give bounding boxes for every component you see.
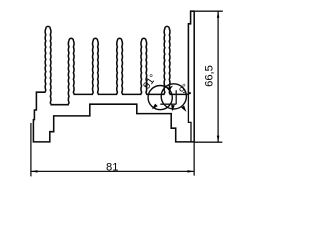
heatsink profile outline xyxy=(33,11,194,142)
dim 81 right extension line xyxy=(193,142,195,176)
angle dim arrowhead lower-left xyxy=(151,104,158,111)
dim 81 line xyxy=(31,170,194,172)
angle dim arc 1 xyxy=(148,86,172,110)
dim 66,5 bottom extension xyxy=(194,141,222,143)
dim 66,5 top arrow xyxy=(217,11,220,18)
angle dim tick dot xyxy=(189,92,191,94)
angle dim arrowhead top xyxy=(167,84,174,91)
dim 66,5 top extension xyxy=(194,10,223,12)
svg-text:81: 81 xyxy=(106,161,118,173)
svg-text:91°: 91° xyxy=(142,73,160,92)
angle dim arc 2 xyxy=(161,84,186,109)
dim 66,5 line xyxy=(217,11,219,142)
dim 81 right arrow xyxy=(188,170,195,173)
dim 81 left extension line xyxy=(30,123,32,176)
dim 81 left arrow xyxy=(31,170,38,173)
right wall inner step xyxy=(188,94,191,141)
dim 66,5 bottom arrow xyxy=(217,136,220,143)
svg-text:66,5: 66,5 xyxy=(204,65,216,87)
angle dim arrowhead lower-right xyxy=(181,106,188,113)
angle dim arrowhead bottom xyxy=(170,105,174,112)
angle dim legs xyxy=(160,90,176,104)
